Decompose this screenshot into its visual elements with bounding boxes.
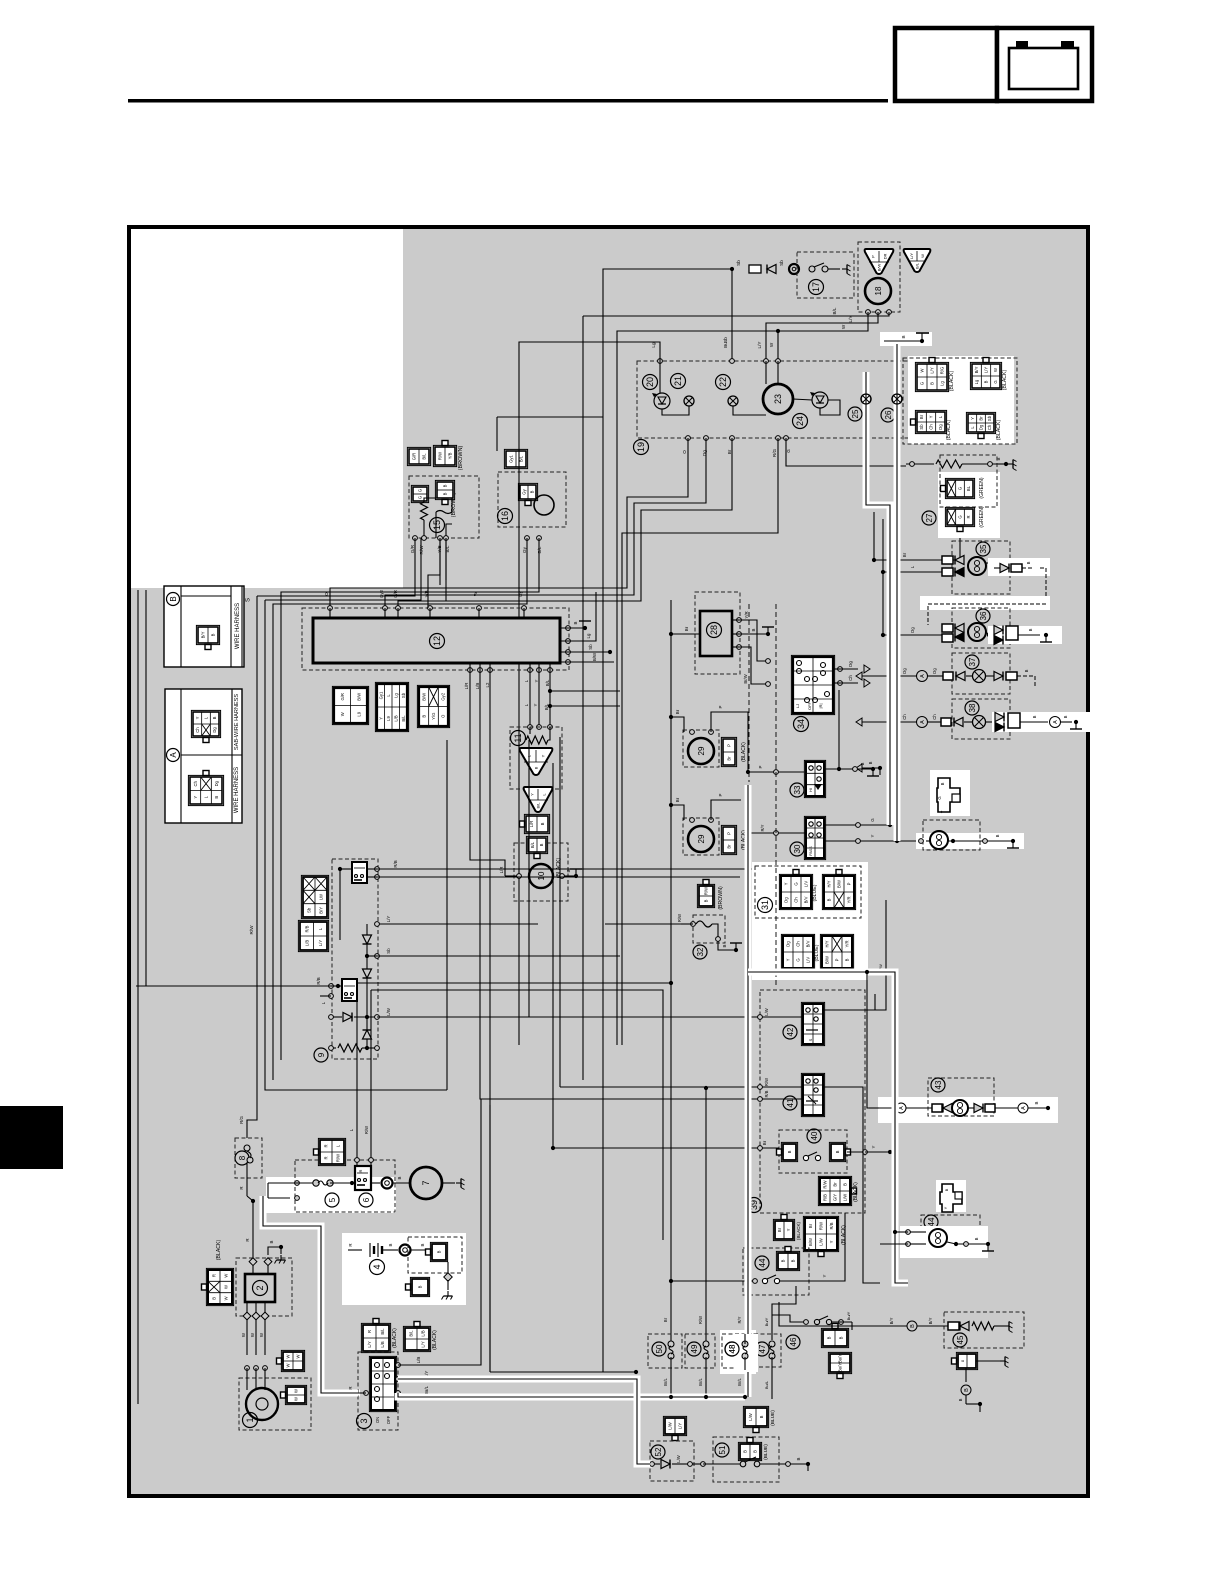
component 45 dashed box xyxy=(944,1312,1024,1348)
svg-text:R: R xyxy=(324,1144,329,1147)
svg-text:|R|: |R| xyxy=(818,704,823,709)
svg-text:R/B: R/B xyxy=(393,860,398,867)
white loop band xyxy=(920,596,1050,610)
svg-text:Bu: Bu xyxy=(723,342,728,348)
svg-text:Br: Br xyxy=(919,414,924,419)
resistor in 9 xyxy=(331,1047,336,1049)
connector in box B xyxy=(196,625,219,644)
svg-text:Y: Y xyxy=(540,754,545,757)
wire horn B/L down xyxy=(538,538,540,586)
wire Lg above meter xyxy=(519,342,660,1045)
wire Br into 28 xyxy=(669,632,673,636)
Y shape connector xyxy=(937,778,960,812)
svg-text:W: W xyxy=(769,342,774,347)
svg-text:Y: Y xyxy=(534,679,539,682)
diode horizontal in 9 xyxy=(331,1016,342,1018)
svg-text:P: P xyxy=(847,882,852,885)
svg-text:W: W xyxy=(294,1389,299,1393)
white patch 36 out xyxy=(988,626,1062,644)
dashed harness line lower xyxy=(775,604,777,988)
svg-text:R: R xyxy=(239,1186,244,1189)
component 45b lamp dashed box xyxy=(921,1215,980,1254)
connector grid 3 under ECU xyxy=(417,685,449,727)
svg-text:B/Y: B/Y xyxy=(319,907,324,914)
wire Bu/Y fuse47 top xyxy=(772,1286,796,1340)
wires feed 43 xyxy=(869,1107,879,1109)
component 27 dashed box xyxy=(940,455,997,507)
svg-text:G: G xyxy=(870,818,875,822)
indicator 25 xyxy=(848,407,862,421)
header box right cell xyxy=(997,28,1092,101)
svg-text:B: B xyxy=(827,898,832,901)
header box left cell xyxy=(895,28,997,101)
headlight 29a xyxy=(688,738,714,764)
svg-text:46: 46 xyxy=(789,1337,798,1346)
white patch battery xyxy=(342,1233,466,1305)
svg-text:28: 28 xyxy=(709,625,719,635)
svg-text:B: B xyxy=(860,762,865,765)
pins right of 3 xyxy=(396,1363,401,1368)
component 18 dashed box xyxy=(858,242,900,312)
wire B/L from 18 xyxy=(583,312,889,316)
svg-text:(BLACK): (BLACK) xyxy=(853,1182,859,1202)
svg-text:G/Y: G/Y xyxy=(833,1194,838,1201)
svg-text:33: 33 xyxy=(793,785,802,794)
connector R/W-B brown xyxy=(697,884,714,907)
svg-text:42: 42 xyxy=(786,1027,795,1036)
connector B in 4 xyxy=(430,1242,447,1261)
svg-text:G: G xyxy=(418,496,423,499)
white wire L/Y from 3 xyxy=(398,1379,652,1464)
svg-text:27: 27 xyxy=(925,513,934,522)
svg-text:B: B xyxy=(212,1297,217,1300)
pins right of 28 xyxy=(737,618,742,623)
svg-text:Gy1: Gy1 xyxy=(378,691,383,699)
connector Gy-B in 16 xyxy=(518,483,537,500)
svg-text:36: 36 xyxy=(979,611,988,620)
svg-text:47: 47 xyxy=(758,1344,767,1353)
svg-text:OFF: OFF xyxy=(807,701,812,710)
svg-text:G: G xyxy=(418,489,423,492)
wire y990 run xyxy=(371,990,663,1240)
fuse 49 xyxy=(703,1341,709,1347)
svg-text:R/G: R/G xyxy=(772,448,777,457)
svg-text:B/W: B/W xyxy=(356,693,361,701)
svg-text:Br: Br xyxy=(777,1227,782,1232)
indicator 21 xyxy=(671,374,686,389)
svg-text:R/G: R/G xyxy=(239,1116,244,1124)
fuse 47 xyxy=(769,1341,775,1347)
feeds 35 xyxy=(873,512,875,560)
wire B/Y long to 45 xyxy=(779,1302,884,1326)
component 30 connector xyxy=(804,816,825,859)
svg-text:PASS: PASS xyxy=(809,846,813,856)
svg-text:R/Y: R/Y xyxy=(737,1316,742,1323)
svg-text:B: B xyxy=(212,716,217,719)
svg-text:Br: Br xyxy=(675,709,680,714)
wire R/G from meter xyxy=(622,438,778,1045)
small bulb on L wire xyxy=(892,394,902,404)
fuse 48 xyxy=(742,1341,748,1347)
wire Br into 40 xyxy=(760,1147,779,1149)
svg-text:W: W xyxy=(841,324,846,329)
svg-text:48: 48 xyxy=(728,1344,737,1353)
svg-text:Br: Br xyxy=(675,797,680,802)
svg-text:6: 6 xyxy=(362,1197,371,1202)
svg-text:Bu/Y: Bu/Y xyxy=(846,1311,851,1320)
svg-text:Sb: Sb xyxy=(723,337,728,343)
svg-text:(BLACK): (BLACK) xyxy=(796,1221,801,1240)
indicator 24 xyxy=(793,414,808,429)
wire into 9 from left xyxy=(136,985,310,987)
svg-text:Dg: Dg xyxy=(214,780,219,786)
svg-text:L/B: L/B xyxy=(416,1357,421,1364)
svg-text:44: 44 xyxy=(758,1258,767,1267)
svg-text:B: B xyxy=(573,621,578,624)
meter pins top xyxy=(658,359,663,364)
svg-text:R/W: R/W xyxy=(704,887,709,895)
svg-text:B: B xyxy=(704,899,709,902)
pins right of relay top xyxy=(375,867,380,872)
wire Bu/Y top chain xyxy=(772,1315,806,1322)
ring terminal 17 xyxy=(789,264,799,274)
wire L/W run xyxy=(377,1016,760,1018)
svg-text:Y: Y xyxy=(786,1228,791,1231)
svg-text:Y: Y xyxy=(533,703,538,706)
svg-text:Y: Y xyxy=(822,1274,827,1277)
svg-text:B/W: B/W xyxy=(837,880,842,888)
svg-text:Dg: Dg xyxy=(784,897,789,903)
component 46 circ xyxy=(786,1335,800,1349)
svg-text:G: G xyxy=(794,882,799,885)
svg-text:Bu/Y: Bu/Y xyxy=(764,1317,769,1326)
svg-text:(BLACK): (BLACK) xyxy=(949,370,955,391)
svg-text:40: 40 xyxy=(810,1131,819,1140)
svg-text:Y: Y xyxy=(970,417,975,420)
page edge index tab xyxy=(0,1106,63,1169)
svg-text:R/W: R/W xyxy=(336,1154,341,1162)
diode 52 xyxy=(650,1462,655,1467)
diode chain in 9 xyxy=(377,923,538,925)
svg-text:B/L: B/L xyxy=(832,307,837,314)
connector B-B in 15 xyxy=(435,480,454,499)
svg-text:Y: Y xyxy=(378,717,383,720)
svg-text:Br: Br xyxy=(833,1182,838,1187)
svg-text:B: B xyxy=(1028,628,1033,631)
svg-text:L/Y: L/Y xyxy=(421,1341,426,1347)
pins around 10 xyxy=(517,874,522,879)
component 19 meter dashed box xyxy=(637,361,913,438)
svg-text:Bu/L: Bu/L xyxy=(764,1380,769,1389)
pins top 29b xyxy=(690,818,695,823)
meter bulb 1 xyxy=(684,396,694,406)
connector 45 below xyxy=(956,1352,977,1369)
wire bus x447 xyxy=(446,1045,448,1090)
svg-text:B: B xyxy=(437,1250,442,1253)
svg-text:R/W: R/W xyxy=(677,914,682,922)
svg-text:R: R xyxy=(966,515,971,518)
front signal 38 chain xyxy=(862,721,917,723)
junction connector stack xyxy=(301,875,328,918)
svg-text:Ch: Ch xyxy=(193,780,198,786)
rectifier bottom pins xyxy=(243,1312,251,1320)
wire Dg from meter xyxy=(385,438,706,608)
component 37 front signal dashed box xyxy=(952,653,1010,694)
component 10 circle xyxy=(529,864,553,888)
svg-text:P: P xyxy=(727,832,732,835)
svg-text:B: B xyxy=(974,1237,979,1240)
svg-text:Gy1: Gy1 xyxy=(509,454,514,462)
relay 42 xyxy=(801,1002,824,1045)
svg-text:Lg: Lg xyxy=(940,381,945,386)
resistor chain right xyxy=(906,463,934,465)
wire bus x617 xyxy=(616,585,618,1045)
svg-text:10: 10 xyxy=(537,871,546,880)
svg-text:G: G xyxy=(920,382,925,385)
svg-text:Br: Br xyxy=(727,756,732,761)
svg-text:16: 16 xyxy=(500,511,510,521)
svg-text:R/W: R/W xyxy=(819,1222,824,1230)
component 48 dashed box xyxy=(722,1334,753,1368)
resistor in 11 xyxy=(529,727,531,734)
wire 15 Y/B down xyxy=(439,538,441,585)
component 2 dashed box xyxy=(236,1258,292,1316)
svg-text:Br/W: Br/W xyxy=(743,674,748,683)
svg-text:R: R xyxy=(367,1330,372,1333)
svg-text:Sb: Sb xyxy=(987,415,992,421)
connector black in 39 xyxy=(818,1176,851,1205)
svg-text:Y/R: Y/R xyxy=(845,941,850,948)
svg-text:W: W xyxy=(294,1397,299,1401)
dashed harness line upper xyxy=(748,604,750,782)
svg-text:O: O xyxy=(682,450,687,454)
svg-text:B: B xyxy=(958,1398,963,1401)
junction dots on Br/L xyxy=(669,1395,673,1399)
svg-text:G/R: G/R xyxy=(393,590,398,598)
ECU top pins xyxy=(328,606,333,611)
component 28 dashed box xyxy=(695,592,740,674)
resistor in 15 xyxy=(421,502,428,520)
svg-text:R/W: R/W xyxy=(764,1078,769,1086)
out chain 38 xyxy=(995,713,1004,722)
svg-text:Y: Y xyxy=(870,834,875,837)
wire G from 30 xyxy=(824,824,890,826)
white patch lamp 43 xyxy=(878,1097,1058,1123)
wire B with ground dot xyxy=(884,340,922,342)
component 8 dashed box xyxy=(235,1138,262,1178)
svg-text:5: 5 xyxy=(328,1197,337,1202)
svg-text:Y/R: Y/R xyxy=(744,611,749,618)
svg-text:B/W: B/W xyxy=(876,264,881,272)
wire G down xyxy=(930,538,960,560)
svg-text:2: 2 xyxy=(255,1285,265,1290)
svg-text:R: R xyxy=(348,1243,353,1246)
svg-text:R/W: R/W xyxy=(438,452,443,460)
svg-text:30: 30 xyxy=(793,844,802,853)
headlight 29b xyxy=(688,826,714,852)
svg-text:B: B xyxy=(269,1240,274,1243)
svg-text:43: 43 xyxy=(934,1080,943,1089)
connector grid 2 under ECU xyxy=(375,682,408,731)
svg-text:BL: BL xyxy=(966,485,971,491)
svg-text:(BLACK): (BLACK) xyxy=(996,419,1002,440)
svg-text:B: B xyxy=(984,380,989,383)
connector Gy1-B/L above 16 xyxy=(504,449,527,468)
component 9 dashed box xyxy=(332,859,378,1059)
svg-text:B/W: B/W xyxy=(825,956,830,964)
connector black B/Y-L/Y-W xyxy=(970,362,1001,389)
junction R xyxy=(251,1199,255,1203)
svg-text:B: B xyxy=(759,1415,764,1418)
connector A lower xyxy=(188,775,223,805)
svg-text:Y: Y xyxy=(193,796,198,799)
white wire R/Y head xyxy=(745,785,752,1397)
svg-text:23: 23 xyxy=(773,394,783,404)
clutch switch 44 xyxy=(745,1280,755,1282)
svg-text:L/Y: L/Y xyxy=(930,367,935,373)
svg-text:Sb: Sb xyxy=(307,907,312,913)
front signal 37 chain xyxy=(862,675,917,677)
svg-text:G: G xyxy=(993,380,998,383)
wires L R/W into 6 xyxy=(356,983,358,1166)
svg-text:B/W: B/W xyxy=(592,652,597,661)
svg-text:LW: LW xyxy=(319,894,324,900)
svg-text:G: G xyxy=(796,958,801,961)
svg-text:L/R: L/R xyxy=(499,867,504,874)
svg-text:(BLUE): (BLUE) xyxy=(812,884,818,901)
svg-text:(BLACK): (BLACK) xyxy=(216,1239,222,1260)
svg-text:49: 49 xyxy=(690,1344,699,1353)
component 17 horn switch box xyxy=(797,252,854,298)
white patch fuse 5 6 xyxy=(266,1177,396,1213)
svg-text:G: G xyxy=(958,515,963,518)
fuse 40 xyxy=(781,1142,797,1161)
svg-text:Y: Y xyxy=(786,958,791,961)
svg-text:Y: Y xyxy=(871,1145,876,1148)
svg-text:R/B: R/B xyxy=(829,1222,834,1229)
white patch Y connector xyxy=(930,770,970,816)
component 18 circle xyxy=(865,278,891,304)
white patch meter connectors xyxy=(908,356,1014,444)
svg-text:B: B xyxy=(964,1388,970,1392)
legend box B xyxy=(164,586,244,667)
triangle connector L/Y-W-B/L xyxy=(904,249,931,272)
svg-text:HI: HI xyxy=(808,788,813,792)
component 52 dashed box xyxy=(650,1441,694,1481)
svg-text:Br/L: Br/L xyxy=(424,1385,429,1394)
wire horn Gy extension xyxy=(273,594,527,1080)
fuse main 5 xyxy=(295,1181,300,1186)
svg-text:B: B xyxy=(901,335,906,338)
wire from junction to relay xyxy=(340,868,352,870)
triangle connector in 11 xyxy=(520,748,553,775)
svg-text:12: 12 xyxy=(432,636,442,646)
component 6 relay xyxy=(355,1166,371,1190)
svg-text:B: B xyxy=(839,1336,844,1339)
white wire R/Y overlay xyxy=(745,785,752,1397)
svg-text:Y/R: Y/R xyxy=(847,897,852,904)
svg-text:W: W xyxy=(993,368,998,372)
ECU bottom pins xyxy=(468,668,473,673)
svg-text:L/V: L/V xyxy=(804,881,809,887)
svg-text:A: A xyxy=(1021,1106,1027,1110)
ground from 28 xyxy=(739,633,768,635)
svg-text:W: W xyxy=(224,1274,229,1278)
svg-text:W: W xyxy=(224,1296,229,1300)
svg-text:R: R xyxy=(212,1274,217,1277)
heater element in 15 xyxy=(436,511,452,514)
component headlight lamp dashed box xyxy=(923,820,980,850)
wire L2 bus xyxy=(489,670,491,1372)
legend box A xyxy=(165,689,242,823)
white patch 45b xyxy=(900,1226,988,1258)
wire bus x560 xyxy=(559,737,561,1087)
ring and 7 xyxy=(371,1182,380,1184)
svg-text:B/L: B/L xyxy=(914,262,919,269)
svg-text:A: A xyxy=(169,752,178,758)
wire L/W into 42 xyxy=(760,1016,803,1018)
svg-text:L/Y: L/Y xyxy=(848,316,853,323)
svg-text:Ch: Ch xyxy=(794,897,799,903)
svg-text:Y/G: Y/G xyxy=(431,713,436,720)
pins above generator xyxy=(245,1366,250,1371)
svg-text:B: B xyxy=(791,1259,796,1262)
svg-text:P: P xyxy=(758,765,763,768)
svg-text:B/Y: B/Y xyxy=(974,366,979,373)
component 5 dashed box xyxy=(295,1160,395,1212)
svg-text:37: 37 xyxy=(968,657,977,666)
component 28 fan unit xyxy=(700,611,732,656)
wire left R/W bus xyxy=(247,596,257,1138)
svg-text:Lg: Lg xyxy=(586,633,591,638)
svg-text:B/L: B/L xyxy=(545,679,550,686)
svg-text:Y: Y xyxy=(829,1240,834,1243)
wire Br from meter xyxy=(398,438,732,608)
svg-text:P: P xyxy=(870,255,875,258)
junction dots right of 11 xyxy=(548,689,552,693)
white wire Y overlay xyxy=(866,372,890,825)
svg-text:R/W: R/W xyxy=(823,1180,828,1188)
svg-text:L/Y: L/Y xyxy=(367,1341,372,1347)
svg-text:W: W xyxy=(286,1354,291,1358)
svg-text:Gy: Gy xyxy=(522,546,527,553)
svg-text:25: 25 xyxy=(851,409,860,418)
svg-text:26: 26 xyxy=(884,410,893,419)
svg-text:WIRE HARNESS: WIRE HARNESS xyxy=(234,767,240,813)
wire Sb horn feed xyxy=(603,269,732,368)
white wire loop bottom right xyxy=(748,972,908,1283)
indicator 27 xyxy=(922,511,936,525)
meter internal wires xyxy=(659,361,661,393)
wire x529 run xyxy=(528,740,530,1017)
svg-text:Dg: Dg xyxy=(938,424,943,430)
connector green 2 xyxy=(945,507,974,526)
svg-text:P: P xyxy=(718,793,723,796)
sidestand switch 51 xyxy=(692,1463,703,1465)
svg-text:9: 9 xyxy=(317,1052,326,1057)
page top rule xyxy=(128,99,888,103)
component 49 dashed box xyxy=(685,1334,715,1368)
pins left of 9 xyxy=(329,984,334,989)
component 16 horn box xyxy=(498,472,566,527)
svg-text:DR: DR xyxy=(882,254,887,260)
svg-text:Br/L: Br/L xyxy=(737,1377,742,1385)
svg-text:Dg: Dg xyxy=(848,661,853,667)
component 12 dashed box xyxy=(302,608,569,670)
svg-text:(BROWN): (BROWN) xyxy=(718,886,724,910)
svg-text:L/B: L/B xyxy=(304,940,309,946)
svg-text:H/Y: H/Y xyxy=(825,940,830,947)
